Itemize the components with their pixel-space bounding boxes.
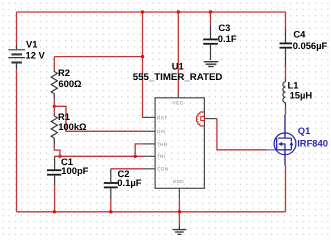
svg-text:VCC: VCC	[173, 100, 184, 105]
node: junction R1/C1/THR/TRI	[58, 155, 61, 158]
wire: bottom rail	[17, 211, 286, 213]
node: junction R2/R1/DIS	[53, 105, 56, 108]
wire: GND pin down through rail	[178, 198, 180, 225]
capacitor C1	[47, 156, 61, 185]
wire: top rail	[17, 11, 286, 13]
svg-text:15µH: 15µH	[290, 89, 313, 100]
wire: THR/TRI net horizontal	[55, 155, 144, 157]
OUT pin red squiggle bracket	[196, 112, 204, 126]
body diode	[290, 138, 292, 141]
svg-text:R2: R2	[58, 67, 70, 78]
source lead navy	[284, 150, 286, 165]
wire: VCC from top rail	[177, 12, 179, 94]
node: junction RST feed / R2 feed	[141, 55, 144, 58]
capacitor C2	[104, 169, 118, 199]
resistor R2	[51, 70, 57, 101]
wire: C4 to L1	[285, 66, 287, 79]
svg-text:IRF840: IRF840	[297, 137, 328, 148]
body arrow left	[278, 142, 282, 146]
svg-text:12 V: 12 V	[26, 49, 46, 60]
svg-text:TRI: TRI	[157, 154, 165, 159]
svg-text:V1: V1	[26, 38, 37, 49]
pin CON stub	[144, 168, 156, 170]
svg-text:C4: C4	[293, 29, 306, 40]
pin THR stub	[144, 143, 156, 145]
wire: R2 bottom to junction	[53, 101, 55, 107]
node: junction THR/TRI	[134, 155, 137, 158]
wire: Q1 source to bottom rail	[285, 165, 287, 212]
svg-text:100pF: 100pF	[61, 165, 88, 176]
circle	[274, 133, 296, 155]
wire: THR branch up	[135, 144, 143, 156]
ground under C3	[204, 62, 219, 67]
svg-text:0.1µF: 0.1µF	[117, 177, 141, 188]
node: junction C2/bottom rail	[109, 210, 112, 213]
node: junction C1/bottom rail	[53, 210, 56, 213]
wire: C2 bottom to rail	[110, 199, 112, 212]
transistor Q1 MOSFET	[267, 115, 296, 166]
svg-text:0.1F: 0.1F	[218, 33, 237, 44]
gate bar	[276, 138, 278, 150]
wire: R2 supply feed horizontal	[54, 56, 142, 58]
svg-text:0.056µF: 0.056µF	[293, 40, 328, 51]
pin RST stub	[144, 116, 156, 118]
svg-text:DIS: DIS	[157, 129, 166, 134]
capacitor C3	[203, 12, 218, 60]
svg-text:GND: GND	[173, 179, 185, 184]
pin OUT stub	[204, 118, 217, 120]
wire: L1 to Q1 drain	[285, 108, 287, 115]
svg-text:C3: C3	[218, 22, 230, 33]
wire: R2 top lead wire	[53, 57, 55, 70]
ground under 555	[173, 225, 187, 234]
svg-text:555_TIMER_RATED: 555_TIMER_RATED	[133, 72, 223, 83]
pin DIS stub	[144, 130, 156, 132]
wire: R1 bottom jog to THR/TRI node	[54, 146, 60, 156]
svg-text:Q1: Q1	[298, 125, 311, 136]
svg-text:100kΩ: 100kΩ	[58, 121, 87, 132]
node: junction GND/bottom rail	[178, 210, 181, 213]
svg-text:CON: CON	[157, 167, 168, 172]
pin TRI stub	[144, 155, 156, 157]
svg-text:600Ω: 600Ω	[58, 78, 82, 89]
op-amp U1 555 timer box	[144, 94, 217, 198]
wire: left vertical battery - down to bottom rail	[16, 69, 18, 212]
OUT pin red marker square	[201, 117, 205, 121]
resistor R1	[51, 106, 57, 146]
pin GND stub	[178, 188, 180, 197]
wire: CON net to C2	[111, 168, 144, 170]
wire: C1 bottom to bottom rail	[54, 185, 56, 212]
node: junction top rail / RST feed	[141, 10, 144, 13]
capacitor C4	[280, 12, 293, 66]
svg-text:THR: THR	[157, 142, 168, 147]
wire: vertical from top rail to RST corner	[143, 12, 145, 117]
top bar	[278, 137, 292, 139]
wire: OUT down and right to gate	[217, 119, 267, 150]
node: junction VCC/top rail	[177, 10, 180, 13]
bottom bar	[277, 149, 292, 151]
wire: DIS net (junction right, down, to DIS pin)	[54, 106, 143, 131]
svg-text:RST: RST	[157, 115, 167, 120]
drain lead navy	[284, 115, 286, 139]
pin VCC stub	[177, 94, 179, 98]
gate lead periwinkle	[267, 149, 277, 151]
battery V1	[8, 45, 25, 70]
inductor L1	[283, 78, 286, 107]
wire: left vertical from top rail to battery +	[16, 12, 18, 45]
node: junction C3/top rail	[209, 10, 212, 13]
svg-text:U1: U1	[172, 60, 184, 71]
